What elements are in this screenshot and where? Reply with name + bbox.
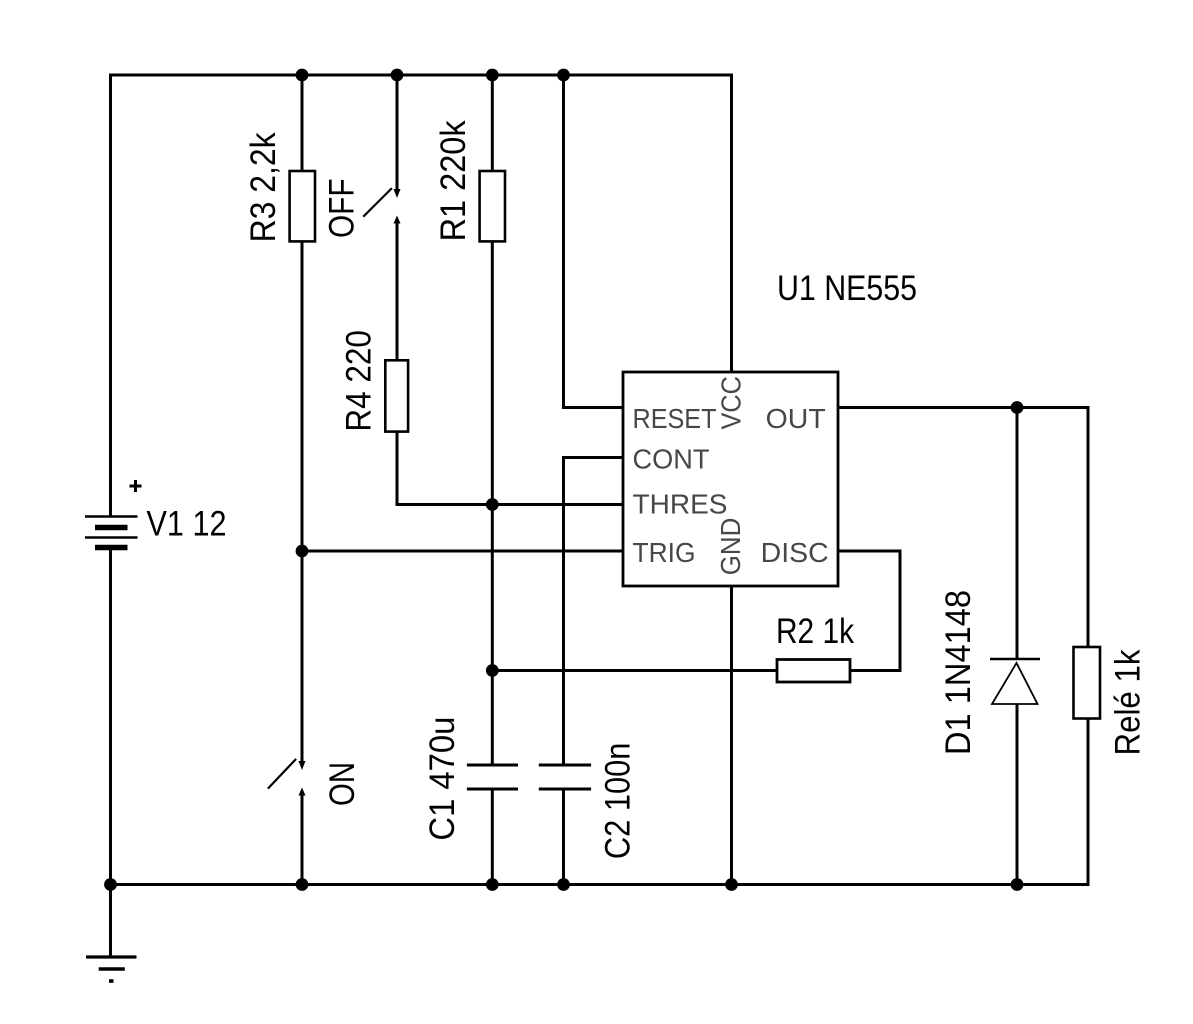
node bottom rail GND [725,878,738,891]
node bottom rail ON [296,878,309,891]
wire R1 bottom to C1 [491,242,494,766]
wire switch ON bottom [301,795,304,885]
node top rail OFF [391,69,404,82]
wire D1 bottom [1016,704,1019,885]
resistor R3 [290,171,315,241]
relay coil Rele 1k [1074,647,1101,719]
ground [86,885,137,982]
wire C1 bottom [491,789,494,885]
svg-text:CONT: CONT [633,444,710,475]
wire OUT to relay [838,408,1088,648]
node top rail R1 [486,69,499,82]
svg-text:R4 220: R4 220 [340,330,379,432]
svg-text:U1 NE555: U1 NE555 [777,269,917,308]
node top rail R3 [296,69,309,82]
svg-text:R1 220k: R1 220k [434,120,473,241]
svg-text:DISC: DISC [761,537,829,568]
svg-text:OUT: OUT [766,403,826,434]
resistor R1 [480,171,505,241]
wire R1 top [491,75,494,171]
wire R3 top [301,75,304,171]
resistor R2 [777,660,850,683]
svg-text:D1 1N4148: D1 1N4148 [939,590,978,755]
switch ON [268,759,306,796]
battery V1 [85,480,142,548]
wire TRIG [302,550,623,553]
node R2 C1 [486,664,499,677]
diode D1 [990,659,1040,704]
wire battery negative to bottom rail [109,548,112,885]
wire OFF top [396,75,399,189]
wire CONT to C2 [564,458,624,766]
svg-text:RESET: RESET [633,403,717,434]
wire switch ON top [301,551,304,761]
wire OFF bottom to R4 [396,223,399,360]
wire top power rail [111,75,732,516]
wire D1 top [1016,408,1019,660]
svg-text:R2 1k: R2 1k [776,612,854,651]
svg-text:GND: GND [715,518,746,576]
wire R2 right to DISC [838,551,900,671]
wire RESET from rail [564,75,624,408]
node bottom rail left [104,878,117,891]
wire GND pin to bottom rail [730,586,733,885]
op-amp U1 NE555 box [623,372,838,586]
switch OFF [363,188,400,223]
wire bottom ground rail [111,719,1089,885]
svg-text:C1 470u: C1 470u [423,717,462,841]
node TRIG R3 [296,545,309,558]
svg-text:R3 2,2k: R3 2,2k [244,132,283,242]
svg-text:THRES: THRES [633,489,728,520]
svg-text:OFF: OFF [323,179,362,239]
wire R3 bottom to TRIG node [301,242,304,552]
svg-text:V1 12: V1 12 [147,505,227,544]
svg-text:VCC: VCC [715,376,746,430]
wire R4 to THRES [397,432,623,505]
node bottom rail C1 [486,878,499,891]
svg-text:TRIG: TRIG [633,537,696,568]
wire R2 left [492,669,777,672]
svg-text:C2 100n: C2 100n [598,743,637,860]
wire C2 bottom [562,789,565,885]
node THRES C1 [486,498,499,511]
node bottom rail D1 [1011,878,1024,891]
node top rail RESET [557,69,570,82]
capacitor C1 [467,765,518,789]
node OUT D1 [1011,401,1024,414]
resistor R4 [385,360,408,431]
svg-text:Relé 1k: Relé 1k [1109,649,1148,755]
node bottom rail C2 [557,878,570,891]
svg-text:ON: ON [323,762,362,806]
capacitor C2 [539,765,591,789]
